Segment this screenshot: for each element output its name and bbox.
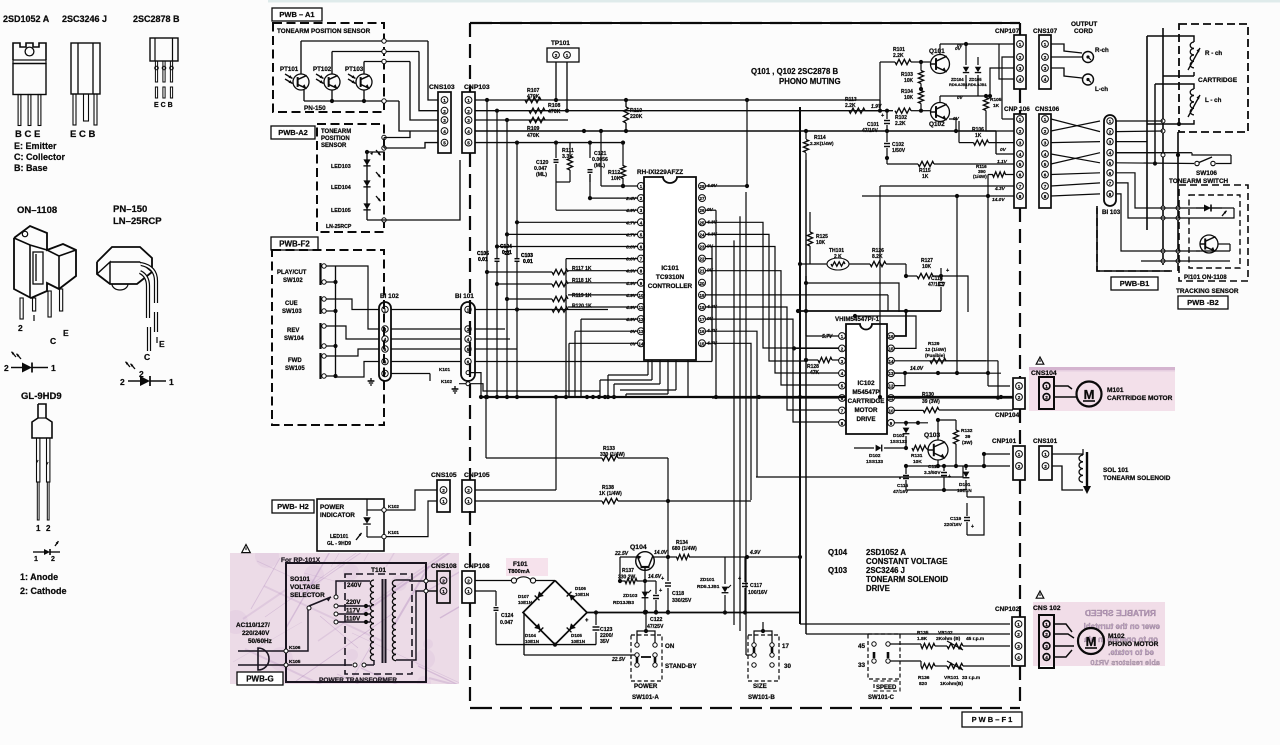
svg-text:RH-IXI229AFZZ: RH-IXI229AFZZ — [637, 169, 683, 176]
svg-text:R105: R105 — [990, 97, 1002, 103]
connector BI102 — [379, 293, 399, 381]
board label PWB-B1 — [1111, 277, 1158, 290]
switch SW102 PLAY/CUT — [277, 263, 326, 285]
svg-text:RD5.1JB1: RD5.1JB1 — [697, 584, 720, 590]
svg-text:1: 1 — [1018, 452, 1021, 457]
svg-text:VR102: VR102 — [938, 630, 953, 636]
svg-text:E: E — [159, 339, 165, 349]
diode D102 — [854, 445, 908, 465]
wire bridge ac left corner — [523, 613, 525, 656]
wire CNP102 left — [800, 623, 1010, 625]
svg-text:SW103: SW103 — [282, 309, 302, 315]
svg-text:LED103: LED103 — [331, 164, 351, 170]
capacitor C116 — [924, 464, 951, 490]
svg-text:2: 2 — [18, 323, 23, 333]
cartridge outline — [1179, 24, 1248, 132]
cartridge R-ch coil — [1188, 42, 1222, 70]
svg-text:SELECTOR: SELECTOR — [290, 592, 325, 599]
jack L-ch — [1083, 74, 1109, 93]
svg-text:CARTRIDGE: CARTRIDGE — [1198, 77, 1238, 84]
svg-text:17: 17 — [700, 317, 705, 322]
svg-text:35V: 35V — [600, 639, 610, 645]
AC power plug and rating — [236, 622, 286, 670]
svg-text:CNP108: CNP108 — [464, 563, 490, 570]
svg-text:Q101 , Q102 2SC2878 B: Q101 , Q102 2SC2878 B — [751, 67, 838, 76]
label D104 — [525, 633, 540, 644]
svg-text:3: 3 — [1017, 644, 1020, 649]
svg-text:2SC3246 J: 2SC3246 J — [866, 566, 905, 575]
svg-text:4.7V: 4.7V — [625, 232, 637, 238]
svg-text:1: 1 — [467, 589, 470, 594]
svg-text:2: 2 — [51, 556, 55, 563]
board outline PWB-F2 — [272, 250, 384, 425]
wire main ground bus — [480, 396, 1013, 398]
svg-text:POWER TRANSFORMER: POWER TRANSFORMER — [319, 677, 397, 684]
junction nodes bus B — [1161, 119, 1165, 123]
svg-text:PLAY/CUT: PLAY/CUT — [277, 270, 307, 276]
transformer T101 windings — [370, 579, 396, 663]
svg-text:CNS101: CNS101 — [1033, 438, 1058, 445]
diode D101 — [957, 464, 972, 494]
cartridge L-ch coil — [1188, 89, 1222, 117]
wire IC101 right pin bundle — [706, 98, 889, 655]
svg-text:F101: F101 — [513, 561, 528, 568]
svg-text:C: Collector: C: Collector — [14, 152, 66, 162]
svg-text:CNP 106: CNP 106 — [1004, 106, 1030, 113]
svg-text:33 r.p.m: 33 r.p.m — [962, 675, 980, 681]
connector CNS105 — [431, 472, 457, 512]
svg-text:+: + — [881, 113, 884, 119]
svg-text:0.01: 0.01 — [478, 257, 488, 263]
svg-text:PI101 ON-1108: PI101 ON-1108 — [1184, 274, 1227, 281]
svg-text:RD6.8JB1: RD6.8JB1 — [949, 82, 968, 87]
svg-text:B: Base: B: Base — [14, 163, 48, 173]
text Q104 Q103 functions — [828, 548, 949, 593]
svg-text:L - ch: L - ch — [1205, 97, 1222, 104]
resistor R134 — [668, 540, 802, 560]
svg-text:220/240V: 220/240V — [242, 630, 270, 637]
wire Q101 base — [926, 61, 930, 63]
svg-text:PWB -B2: PWB -B2 — [1187, 298, 1219, 307]
svg-text:2SC2878 B: 2SC2878 B — [133, 14, 180, 24]
svg-text:2.2K: 2.2K — [893, 53, 904, 59]
phototransistor PT101 — [280, 66, 309, 90]
svg-text:PHONO MOTOR: PHONO MOTOR — [1108, 641, 1159, 648]
svg-text:R129: R129 — [928, 341, 940, 347]
svg-text:13: 13 — [889, 371, 894, 376]
svg-text:26: 26 — [700, 208, 705, 213]
svg-text:E: E — [63, 328, 69, 338]
svg-text:TP101: TP101 — [551, 40, 570, 47]
svg-text:SW105: SW105 — [285, 366, 305, 372]
svg-text:11: 11 — [889, 396, 894, 401]
svg-text:Q103: Q103 — [828, 566, 848, 575]
wire CNP102 rail — [800, 623, 1010, 625]
svg-text:C124: C124 — [501, 613, 514, 619]
svg-text:3: 3 — [467, 118, 470, 123]
svg-text:R120 1K: R120 1K — [572, 304, 592, 310]
svg-text:10K: 10K — [611, 176, 621, 182]
wire rail pin3 — [475, 119, 568, 121]
capacitor C121 — [588, 141, 608, 183]
svg-text:470K: 470K — [548, 109, 561, 115]
jack R-ch — [1083, 47, 1109, 63]
svg-text:CNS106: CNS106 — [1035, 106, 1060, 113]
warning triangle near H2 — [242, 545, 251, 553]
svg-text:10E1N: 10E1N — [957, 488, 972, 494]
fuse highlight — [506, 558, 548, 576]
board label PWB-G — [237, 672, 283, 685]
svg-text:47/10V: 47/10V — [862, 128, 879, 134]
capacitors C106 C107 C108 C109 — [477, 244, 533, 265]
svg-text:240V: 240V — [347, 582, 362, 589]
wire R103 R104 junction — [921, 88, 940, 90]
svg-text:C115: C115 — [897, 483, 909, 489]
svg-text:1: 1 — [1019, 42, 1022, 47]
connector CNP105 — [462, 472, 490, 512]
svg-text:0V: 0V — [630, 329, 637, 335]
IC101 left pin voltages — [625, 196, 637, 347]
capacitor C118 — [661, 557, 692, 614]
svg-text:47K: 47K — [810, 370, 820, 376]
wire muting emitters — [949, 70, 958, 72]
svg-text:5: 5 — [1044, 162, 1047, 167]
motor M102 phono motor — [1078, 628, 1159, 654]
svg-text:T101: T101 — [371, 567, 386, 574]
connector BI103 — [1102, 115, 1121, 216]
svg-text:SIZE: SIZE — [753, 683, 767, 690]
svg-text:4.3V: 4.3V — [994, 186, 1006, 192]
transistor Q102 — [929, 103, 950, 129]
resistor R132 — [936, 418, 973, 466]
board outline main PCB right — [1019, 23, 1021, 708]
svg-text:20: 20 — [700, 281, 705, 286]
svg-text:18: 18 — [700, 305, 705, 310]
connector CNP106 — [1004, 106, 1030, 208]
zener ZD105 — [968, 57, 987, 96]
svg-text:2: 2 — [467, 579, 470, 584]
wire BI102 to BI101 — [391, 310, 461, 382]
svg-text:2.2K: 2.2K — [895, 121, 906, 127]
svg-text:C: C — [50, 336, 56, 346]
zener ZD103 — [613, 590, 651, 606]
svg-text:BI 103: BI 103 — [1102, 209, 1121, 216]
resistor R130 — [895, 392, 941, 405]
svg-text:5: 5 — [1019, 162, 1022, 167]
wire CNS101 to SOL101 — [1052, 453, 1083, 455]
svg-text:1: 1 — [1045, 622, 1048, 627]
svg-text:R137: R137 — [622, 568, 634, 574]
svg-text:17: 17 — [782, 643, 789, 650]
svg-text:1SS133: 1SS133 — [866, 459, 883, 465]
LED package drawing GL-9HD9 — [32, 404, 52, 533]
board outline main PCB bottom — [470, 707, 1020, 709]
wire TP101 pins down — [555, 62, 557, 100]
svg-text:6: 6 — [1044, 173, 1047, 178]
resistor R103 — [901, 60, 924, 89]
svg-text:14.0V: 14.0V — [992, 197, 1005, 203]
wire CNP105 right — [475, 489, 556, 491]
board outline main PCB left — [469, 23, 471, 708]
svg-text:1: 1 — [1044, 452, 1047, 457]
svg-text:FWD: FWD — [288, 358, 302, 364]
svg-text:Q101: Q101 — [929, 48, 945, 55]
svg-text:39 (3W): 39 (3W) — [922, 399, 940, 405]
voltage selector SO101 taps — [307, 581, 370, 624]
resistor R133 — [484, 395, 668, 501]
connector CNS102 — [1033, 605, 1061, 668]
svg-text:SW102: SW102 — [283, 278, 303, 284]
svg-text:PN–150: PN–150 — [113, 204, 147, 215]
svg-text:ON–1108: ON–1108 — [17, 205, 57, 216]
board outline PWB-G solid — [286, 563, 426, 682]
svg-text:REV: REV — [287, 328, 299, 334]
svg-text:5: 5 — [467, 141, 470, 146]
svg-text:2: 2 — [1018, 395, 1021, 400]
svg-text:R130: R130 — [922, 392, 934, 398]
wire tracking sensor connections — [1121, 208, 1236, 261]
svg-text:3.3K: 3.3K — [562, 154, 573, 160]
svg-text:1: 1 — [1045, 384, 1048, 389]
phototransistor drawing PN-150 — [97, 247, 165, 379]
svg-text:M54547P: M54547P — [852, 389, 880, 396]
svg-text:BI 101: BI 101 — [455, 293, 474, 300]
svg-text:E C B: E C B — [154, 102, 173, 109]
switch SW101-B SIZE — [734, 622, 791, 701]
connector BI101 — [455, 293, 475, 381]
wire to Q104 collector — [667, 501, 669, 557]
capacitor C123 — [585, 613, 614, 646]
svg-text:1: 1 — [1044, 42, 1047, 47]
svg-text:CNP101: CNP101 — [992, 438, 1017, 445]
svg-text:0.0V: 0.0V — [626, 257, 637, 263]
svg-text:680 (1/4W): 680 (1/4W) — [672, 546, 697, 552]
svg-text:TONEARM POSITION SENSOR: TONEARM POSITION SENSOR — [277, 28, 371, 35]
svg-text:RD6.8JB1: RD6.8JB1 — [968, 82, 987, 87]
svg-text:45 r.p.m: 45 r.p.m — [966, 636, 984, 642]
svg-text:IC102: IC102 — [857, 380, 874, 387]
svg-text:PHONO MUTING: PHONO MUTING — [779, 77, 841, 86]
svg-text:1: 1 — [442, 589, 445, 594]
wire size switch feeds — [734, 625, 746, 655]
wire CNS106 to BI103 crossover — [1051, 119, 1100, 196]
svg-text:19: 19 — [700, 293, 705, 298]
wire CNS104 to M101 — [1054, 386, 1072, 389]
svg-text:ed to rotate.: ed to rotate. — [1108, 648, 1154, 657]
svg-text:AC110/127/: AC110/127/ — [236, 622, 270, 629]
svg-text:12: 12 — [639, 317, 644, 322]
svg-text:CNS104: CNS104 — [1031, 370, 1057, 377]
svg-text:6: 6 — [1019, 173, 1022, 178]
wire vertical bus C — [1154, 84, 1156, 164]
tracking sensor LED PI101 — [1196, 205, 1226, 217]
svg-text:DRIVE: DRIVE — [866, 584, 890, 593]
svg-text:2.2K(1/4W): 2.2K(1/4W) — [810, 141, 834, 146]
connector CNS103 — [429, 84, 455, 153]
svg-text:2: 2 — [4, 363, 9, 373]
svg-text:7: 7 — [1019, 184, 1022, 189]
svg-text:CNS 102: CNS 102 — [1033, 605, 1061, 612]
resistor R135 — [890, 630, 935, 649]
svg-text:R - ch: R - ch — [1205, 50, 1222, 57]
switch SW101-C SPEED — [858, 634, 900, 701]
svg-text:K102: K102 — [441, 379, 452, 384]
svg-text:MOTOR: MOTOR — [855, 407, 878, 414]
svg-text:3.3/50V: 3.3/50V — [924, 470, 941, 476]
svg-text:3: 3 — [1019, 66, 1022, 71]
wire PWB-A2 to CNS103 — [367, 131, 460, 222]
svg-text:CNS108: CNS108 — [431, 563, 457, 570]
svg-text:4.9V: 4.9V — [625, 293, 637, 299]
svg-text:2 K: 2 K — [834, 254, 842, 260]
wire IC102 right pins upper — [796, 309, 1013, 398]
resistor R116 — [973, 164, 1014, 179]
wire speed network — [855, 634, 1010, 666]
svg-text:PWB-B1: PWB-B1 — [1120, 279, 1150, 288]
svg-text:1K (1/4W): 1K (1/4W) — [599, 491, 622, 497]
wire verticals from CNP103 pins — [485, 100, 520, 399]
svg-text:VOLTAGE: VOLTAGE — [290, 584, 321, 591]
svg-text:1: 1 — [1018, 384, 1021, 389]
svg-text:2Kohm (B): 2Kohm (B) — [936, 636, 961, 642]
svg-text:45: 45 — [858, 643, 866, 650]
resistor R105 — [983, 94, 1014, 131]
svg-text:23: 23 — [700, 245, 705, 250]
svg-text:1K: 1K — [922, 174, 929, 180]
package drawing 2SC2878 — [150, 38, 178, 109]
svg-text:3: 3 — [1045, 644, 1048, 649]
resistor R114 — [803, 129, 834, 160]
capacitor C102 — [884, 131, 906, 158]
wire transformer secondary to CNS108 — [396, 579, 437, 660]
opto-interrupter drawing ON-1108 — [14, 226, 76, 346]
svg-text:0.047: 0.047 — [500, 620, 513, 626]
svg-text:4: 4 — [1045, 655, 1048, 660]
svg-text:1: 1 — [1044, 117, 1047, 122]
svg-text:K101: K101 — [388, 530, 399, 535]
label D106 — [575, 586, 590, 597]
resistor R108 — [529, 103, 561, 115]
wire SW106 row — [1157, 163, 1194, 165]
svg-text:SW104: SW104 — [284, 336, 304, 342]
svg-text:Q104: Q104 — [630, 544, 647, 551]
IC101 right pin voltages — [706, 183, 718, 346]
switch SW106 tonearm switch — [1169, 157, 1229, 185]
svg-text:SW101-C: SW101-C — [868, 695, 895, 701]
svg-text:10: 10 — [639, 293, 644, 298]
svg-text:LN–25RCP: LN–25RCP — [113, 216, 162, 227]
connector CNS106 — [1035, 106, 1060, 208]
svg-text:CONSTANT VOLTAGE: CONSTANT VOLTAGE — [866, 557, 947, 566]
svg-text:M102: M102 — [1108, 633, 1125, 640]
wire C119 loop — [967, 497, 984, 535]
svg-text:2.4V: 2.4V — [625, 196, 637, 202]
svg-text:2.2K: 2.2K — [845, 103, 856, 109]
svg-text:3: 3 — [1044, 141, 1047, 146]
svg-text:12 (1/4W): 12 (1/4W) — [925, 347, 946, 353]
svg-text:D102: D102 — [869, 453, 881, 459]
wire vertical bus B — [1162, 28, 1164, 265]
svg-text:2: 2 — [1044, 55, 1047, 60]
svg-text:4.9V: 4.9V — [625, 208, 637, 214]
connector CNP103 — [462, 84, 490, 153]
svg-text:0V: 0V — [957, 43, 964, 48]
board label PWB-B2 — [1178, 296, 1228, 309]
wire emitter bus down — [906, 489, 966, 491]
IC U102 M54547P cartridge motor drive — [839, 324, 895, 434]
wire K101 K102 to CNS105 — [367, 490, 437, 539]
board label PWB-F2 — [271, 237, 318, 250]
svg-text:+: + — [738, 576, 741, 582]
resistor R125 — [807, 212, 828, 264]
svg-text:4: 4 — [1019, 152, 1022, 157]
wire tracking sensor internal — [1196, 208, 1230, 218]
svg-text:RD13JB3: RD13JB3 — [613, 600, 634, 606]
svg-text:2SD1052 A: 2SD1052 A — [3, 14, 50, 24]
zener ZD101 — [697, 557, 731, 612]
svg-text:Q104: Q104 — [828, 548, 848, 557]
board outline PWB-A2 — [317, 124, 384, 232]
wire PWB-F2 switch bus — [326, 266, 379, 378]
wire PWB-A1 sensor buses — [301, 39, 438, 131]
capacitor C101 — [862, 109, 890, 134]
wire pin11 long — [895, 397, 1014, 399]
wire 0V rail — [886, 158, 888, 164]
svg-text:2: 2 — [555, 53, 558, 58]
diode bridge D104-D107 — [523, 581, 587, 645]
svg-text:14: 14 — [889, 359, 894, 364]
svg-text:2: 2 — [1045, 395, 1048, 400]
resistor R113 — [845, 97, 880, 113]
wire Q104 base chain — [644, 571, 646, 613]
connector CNP104 — [995, 378, 1025, 419]
svg-text:CNP105: CNP105 — [464, 472, 490, 479]
svg-text:ON: ON — [665, 643, 675, 650]
wire vertical x880 — [879, 100, 881, 111]
resistor R138 — [475, 485, 751, 504]
svg-text:B C E: B C E — [15, 129, 40, 140]
resistor R109 — [527, 117, 545, 139]
svg-text:+: + — [585, 618, 589, 624]
wire horizontals mid — [711, 362, 713, 398]
svg-text:R131: R131 — [911, 453, 923, 459]
svg-text:C118: C118 — [672, 591, 684, 597]
svg-text:PN-150: PN-150 — [304, 105, 326, 112]
svg-text:1: 1 — [443, 98, 446, 103]
svg-text:1: 1 — [36, 524, 41, 533]
power indicator LED101 PWB-H2 — [317, 499, 384, 551]
svg-text:220/16V: 220/16V — [944, 522, 963, 528]
capacitor C117 — [738, 557, 768, 612]
svg-text:8: 8 — [1019, 194, 1022, 199]
svg-text:4.9V: 4.9V — [625, 269, 637, 275]
wire IC101 bottom pins — [600, 360, 688, 397]
svg-text:LED101: LED101 — [330, 534, 349, 540]
svg-text:PWB-A2: PWB-A2 — [278, 128, 308, 137]
svg-text:10K: 10K — [913, 459, 922, 465]
wire Q104 collector to node — [654, 556, 669, 558]
phototransistor PT102 — [313, 66, 340, 90]
svg-text:50/60Hz: 50/60Hz — [248, 638, 272, 645]
svg-text:(3W): (3W) — [962, 440, 973, 446]
svg-text:4: 4 — [1044, 77, 1047, 82]
resistor R129 — [925, 341, 1010, 400]
svg-text:4.9V: 4.9V — [625, 317, 637, 323]
zener ZD104 — [949, 42, 969, 89]
wire CNS102 to M102 — [1054, 624, 1074, 657]
wire Q103 emitter — [937, 460, 939, 466]
switch SW105 FWD — [285, 353, 326, 379]
